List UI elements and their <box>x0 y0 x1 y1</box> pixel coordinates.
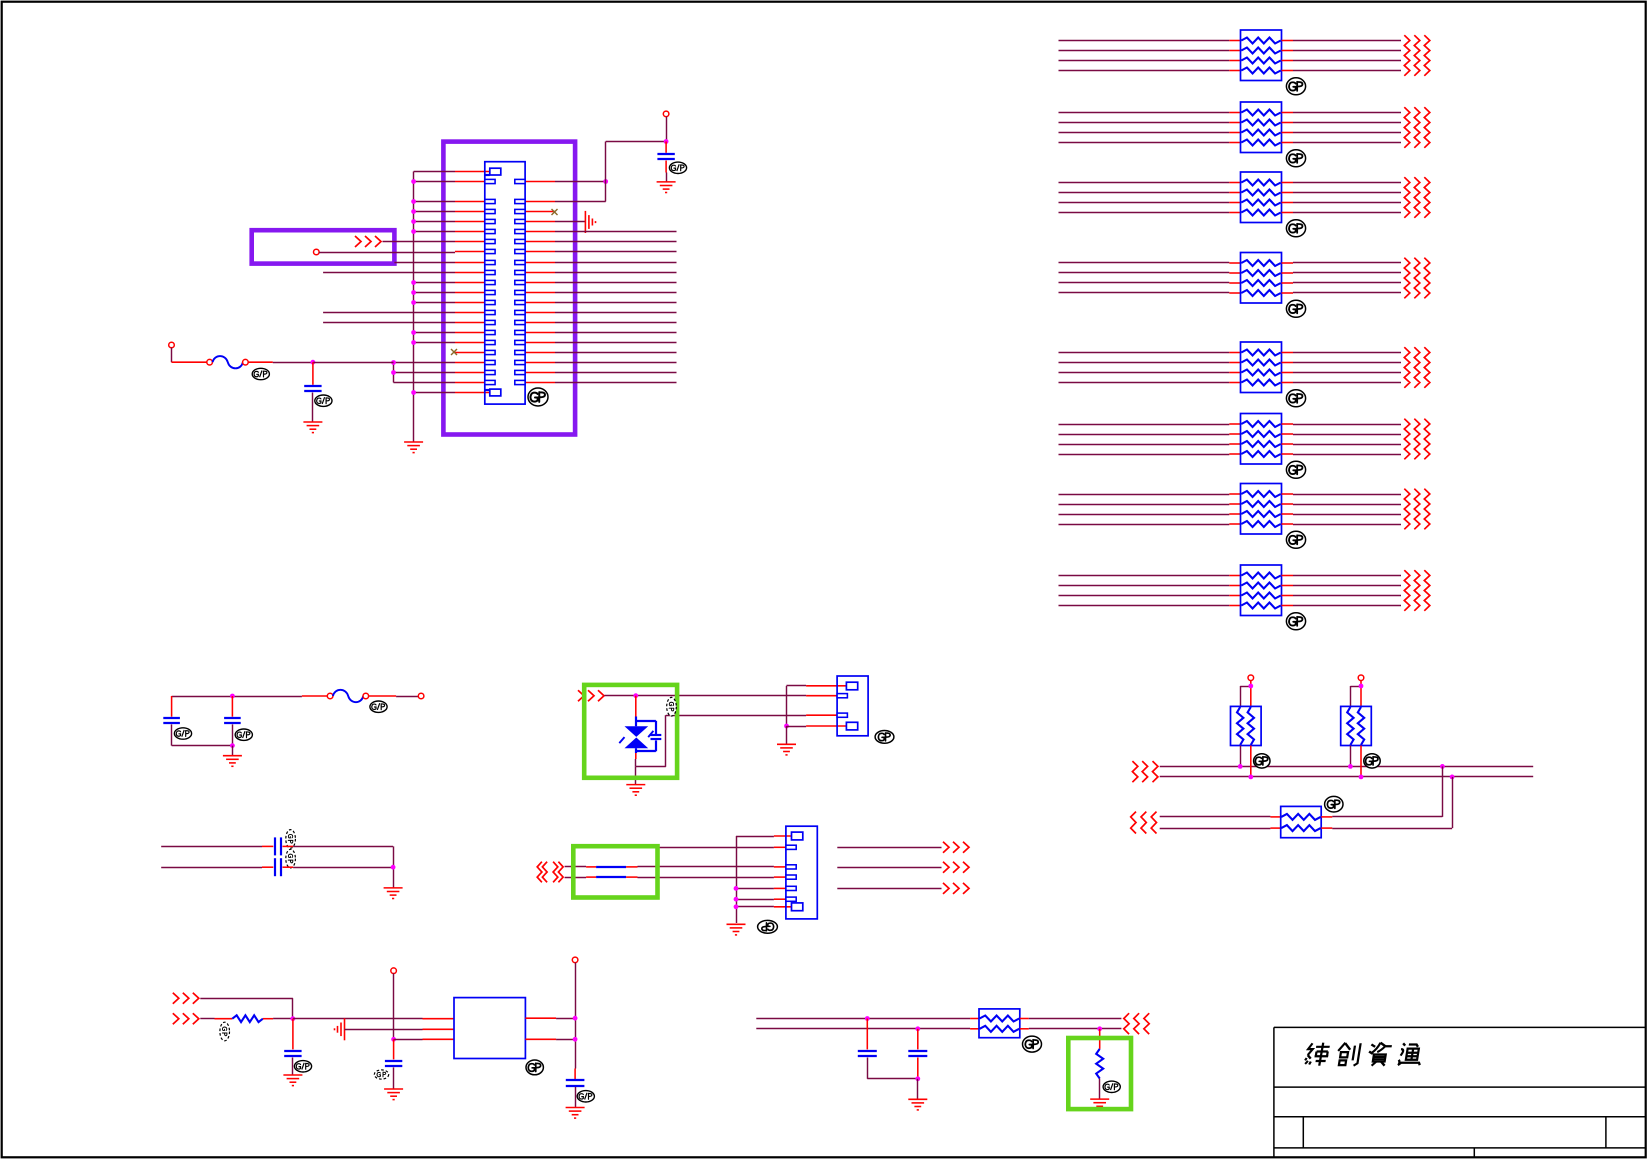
connector CN3 body <box>786 826 817 919</box>
capacitor C11 <box>908 1029 927 1079</box>
ground under C9 <box>566 1108 585 1119</box>
purple highlight box around off-page reference <box>252 230 395 263</box>
off-page arrows right of RP5 <box>1404 347 1430 388</box>
title block outline <box>1274 1027 1646 1157</box>
ground under C1 <box>657 182 676 193</box>
green highlight box around FB1 FB2 <box>573 846 657 897</box>
bus wire 2 <box>1160 776 1534 778</box>
resistor pack RP8 <box>1241 565 1282 616</box>
off-page arrows right of RP1 <box>1404 35 1430 76</box>
resistor pack RP11 <box>1281 806 1322 837</box>
off-page arrow C <box>943 883 969 894</box>
connector CN2 body <box>837 676 868 736</box>
wire to fuse F1 <box>172 361 207 363</box>
CN1 long right wires <box>555 232 677 383</box>
power terminal above RP9 <box>1248 675 1254 681</box>
wire into FB3 net1 <box>756 1018 979 1020</box>
no-connect X on left pin row 352 <box>451 349 457 355</box>
wire to ground under C4 <box>232 746 234 756</box>
long wire to CN1 pin row 272 <box>323 272 455 274</box>
resistor pack RP1 left wires <box>1059 41 1230 71</box>
resistor pack RP7 GP marker <box>1286 531 1305 548</box>
terminal circle right of F2 <box>418 693 424 699</box>
off-page arrow B <box>943 862 969 873</box>
wire row 372 <box>394 372 456 374</box>
wire caps to fuse F2 <box>302 695 328 697</box>
resistor pack RP3 right wires <box>1293 183 1401 213</box>
resistor pack RP5 right wires <box>1293 353 1401 383</box>
capacitor C8 <box>385 1039 402 1089</box>
RP9 junction dots <box>1238 764 1253 779</box>
resistor pack RP7 right pin stubs <box>1282 494 1294 524</box>
resistor R2 pulldown <box>1096 1029 1103 1099</box>
fuse F2 G/P marker <box>370 701 387 712</box>
ground under C11 <box>908 1099 927 1110</box>
resistor pack RP1 right pin stubs <box>1282 41 1294 71</box>
wire bus2 down to RP11 <box>1452 777 1454 828</box>
green highlight box around TVS <box>584 685 677 778</box>
resistor pack RP2 left pin stubs <box>1229 113 1240 143</box>
wire top of caps C3 C4 <box>172 696 302 698</box>
C1 G/P marker <box>669 162 686 173</box>
C5 label <box>286 830 296 849</box>
resistor pack RP3 right pin stubs <box>1282 183 1294 213</box>
ground under series caps <box>384 888 403 899</box>
wire fuse to C2 junction <box>248 361 313 363</box>
resistor pack RP3 <box>1241 172 1282 223</box>
junction dot row 181 <box>603 179 608 184</box>
wire CN2 pin4 <box>787 725 847 728</box>
ground under C8 <box>384 1089 403 1100</box>
wire CN3 pin7 <box>736 906 792 908</box>
RP10 wire to bus2 <box>1360 746 1362 777</box>
wire C5 to corner <box>283 845 394 847</box>
CN1 pin1 wire to bus <box>414 171 455 173</box>
resistor pack RP7 right wires <box>1293 495 1401 525</box>
CN3 output wire A <box>837 847 941 849</box>
purple highlight box around connector CN1 <box>443 142 575 435</box>
junction dot under C11 <box>915 1076 920 1081</box>
no-connect X on right pin row 211 <box>552 209 558 215</box>
bus wire 1 <box>1160 766 1534 768</box>
ground under CN2 <box>777 744 796 755</box>
CN3 output wire B <box>837 867 941 869</box>
wire terminal down <box>171 348 173 363</box>
ground under CN1 bus <box>404 442 423 453</box>
off-page arrow A <box>943 842 969 853</box>
bottom wire joining C3 C4 <box>172 745 233 747</box>
RP10 top tie wires <box>1350 680 1361 706</box>
terminal circle above U1 area <box>391 968 397 974</box>
ground under C4 <box>223 756 242 767</box>
ground under C7 <box>283 1075 302 1086</box>
junction dot CN2 pin4 net <box>784 724 789 729</box>
TVS label <box>667 697 677 716</box>
terminal circle left of fuse F1 <box>169 342 175 348</box>
wire net2 to resistor R1 <box>200 1018 232 1020</box>
resistor pack RP1 right wires <box>1293 41 1401 71</box>
resistor pack RP2 right wires <box>1293 113 1401 143</box>
terminal circle right vertical <box>572 957 578 963</box>
R2 G/P marker <box>1103 1081 1120 1092</box>
jog wire joining rows 362-382 <box>393 363 395 383</box>
resistor pack RP1 left pin stubs <box>1229 41 1240 71</box>
long wire to CN1 pin row 312 <box>323 312 455 314</box>
series element FB1 on CN3 pin3 net <box>565 866 786 869</box>
resistor R1 <box>232 1015 263 1022</box>
off-page arrows right of RP7 <box>1404 489 1430 530</box>
junction dot under C4 <box>230 743 235 748</box>
green highlight box around R2 <box>1068 1038 1131 1109</box>
terminal circle in small purple box <box>314 249 320 255</box>
FB3 output wire net2 <box>1020 1028 1122 1030</box>
capacitor C7 <box>284 1019 301 1075</box>
fuse F1 G/P marker <box>252 368 269 379</box>
RP9 top tie wires <box>1240 680 1251 706</box>
vertical wire right of caps <box>393 846 395 887</box>
capacitor C6 <box>275 858 281 876</box>
junction dot U1 pin3 net <box>391 1037 396 1042</box>
wire into C5 <box>161 845 273 847</box>
wire CN3 pin1 ground net <box>736 836 792 923</box>
junction dot above TVS D1 <box>633 693 638 698</box>
power terminal above RP10 <box>1358 675 1364 681</box>
wire TVS to ground <box>635 767 637 785</box>
C8 label <box>374 1070 388 1079</box>
junction dot at C10 <box>865 1016 870 1021</box>
resistor pack RP8 right wires <box>1293 576 1401 606</box>
wire CN2 pin1 to ground net <box>787 686 847 727</box>
wire net1 corner <box>200 998 293 1019</box>
wire arrow to CN2 pin2 <box>605 695 807 697</box>
wire from arrow to CN1 row 241 <box>383 241 456 243</box>
vertical wire from terminal <box>393 973 395 1039</box>
resistor pack RP5 <box>1241 342 1282 393</box>
wire C6 to junction <box>283 866 394 868</box>
CN2 pin3 stub <box>806 714 837 716</box>
resistor pack RP5 GP marker <box>1286 390 1305 407</box>
resistor pack FB3 <box>979 1009 1020 1038</box>
resistor pack RP8 GP marker <box>1286 613 1305 630</box>
company name 緯創資通 <box>1304 1043 1330 1066</box>
long wire to CN1 pin row 322 <box>323 322 455 324</box>
off-page arrows into bus wires 1-2 <box>1132 761 1158 782</box>
chassis ground right of CN1 <box>585 211 595 233</box>
wire into C6 <box>161 866 273 868</box>
wire TVS bottom loop <box>636 715 807 767</box>
U1 output wire 1 <box>525 1017 575 1019</box>
resistor pack RP6 right wires <box>1293 425 1401 455</box>
off-page arrow into TVS net <box>578 690 604 701</box>
R1 label <box>220 1022 230 1041</box>
RP10 GP marker <box>1364 754 1380 768</box>
CN2 pin2 stub <box>806 695 837 697</box>
capacitor C4 <box>224 696 241 746</box>
right vertical wire <box>575 963 577 1069</box>
bidirectional off-page arrows into CN3 nets <box>537 862 563 883</box>
ground under C2 <box>303 422 322 433</box>
RP11 right wires <box>1321 817 1452 829</box>
connector CN1 GP marker <box>528 388 548 406</box>
resistor pack RP3 left wires <box>1059 183 1230 213</box>
RP11 left wires <box>1160 817 1281 829</box>
wire into FB3 net2 <box>756 1028 979 1030</box>
ground under R2 <box>1090 1099 1109 1110</box>
left bus wire of CN1 <box>413 172 415 442</box>
resistor pack RP8 left pin stubs <box>1229 576 1240 606</box>
C9 G/P marker <box>577 1091 594 1102</box>
wire CN3 pin2 net <box>574 846 786 848</box>
capacitor C5 <box>275 837 281 855</box>
junction dot bus2 right <box>1450 775 1455 780</box>
CN1 right wire row 221 <box>555 221 585 223</box>
C6 label <box>286 849 296 868</box>
off-page arrow net1 <box>173 993 199 1004</box>
wire to ground under C11 <box>917 1079 919 1099</box>
CN3 GP marker rotated <box>758 920 778 933</box>
resistor pack RP6 right pin stubs <box>1282 424 1294 454</box>
junction dots on right vertical <box>573 1016 578 1042</box>
junction dot at C1 top <box>664 139 669 144</box>
pull-up pack RP9 <box>1231 706 1262 745</box>
off-page arrow into pin row 241 <box>355 236 381 247</box>
CN1 right wire row 201 jog up <box>555 142 666 202</box>
junction dot at C7 <box>291 1016 296 1021</box>
resistor pack RP6 <box>1241 414 1282 465</box>
resistor pack RP5 left wires <box>1059 353 1230 383</box>
ground under CN3 <box>727 924 746 935</box>
wire bus1 down to RP11 <box>1442 766 1444 817</box>
resistor pack RP2 <box>1241 102 1282 153</box>
off-page arrow net2 <box>173 1013 199 1024</box>
resistor pack RP1 GP marker <box>1286 78 1305 95</box>
wire terminal to C1 <box>666 117 668 142</box>
off-page arrows right of RP6 <box>1404 419 1430 460</box>
C3 G/P marker <box>174 728 191 739</box>
cap element of D1 <box>636 721 661 752</box>
wire from terminal to CN1 row 251 <box>319 252 455 254</box>
junction dot above RP9 <box>1248 684 1253 689</box>
C4 G/P marker <box>235 729 252 740</box>
junction dot above C4 <box>230 694 235 699</box>
wire C10 to C11 ground joint <box>867 1078 918 1080</box>
RP9 wire to bus1 <box>1240 746 1242 767</box>
TVS diode D1 <box>619 696 653 759</box>
C2 G/P marker <box>315 395 332 406</box>
resistor pack RP4 GP marker <box>1286 300 1305 317</box>
RP11 GP marker <box>1325 796 1343 812</box>
fuse F1 <box>207 356 248 368</box>
capacitor C9 <box>566 1069 585 1108</box>
pull-up pack RP10 <box>1341 706 1372 745</box>
wire C2 junction to jog <box>313 362 394 364</box>
connector CN1 right pin stubs <box>525 182 555 383</box>
resistor pack RP4 left wires <box>1059 263 1230 293</box>
capacitor C3 <box>163 696 180 746</box>
wire to block U1 pin3 <box>394 1038 454 1040</box>
CN1 right wire row 181 <box>555 181 606 183</box>
resistor pack RP2 right pin stubs <box>1282 113 1294 143</box>
U1 GP marker <box>526 1060 543 1075</box>
resistor pack RP5 left pin stubs <box>1229 353 1240 383</box>
resistor pack RP3 GP marker <box>1286 220 1305 237</box>
CN2 GP marker <box>875 731 894 744</box>
resistor pack RP6 left wires <box>1059 425 1230 455</box>
resistor pack RP4 right pin stubs <box>1282 263 1294 293</box>
wire chassis to block U1 pin2 <box>345 1028 455 1030</box>
power terminal circle above C1 <box>663 111 669 117</box>
resistor pack RP7 <box>1241 484 1282 535</box>
jog junction dots <box>391 360 396 375</box>
series element FB2 on CN3 pin4 net <box>565 876 786 879</box>
RP9 wire to bus2 <box>1250 746 1252 777</box>
wire fuse F2 to terminal <box>369 695 419 698</box>
wire CN3 pin5 <box>736 887 786 889</box>
capacitor C10 <box>858 1019 877 1079</box>
connector CN1 body <box>485 162 525 404</box>
off-page arrows into RP11 nets <box>1131 812 1157 834</box>
off-page arrows left-pointing right of FB3 <box>1124 1013 1149 1034</box>
CN1 left pin wires to bus <box>414 182 455 393</box>
resistor pack RP2 GP marker <box>1286 150 1305 167</box>
wire stub row 262 from box edge <box>394 262 455 264</box>
wire CN2 ground <box>786 726 788 744</box>
C7 G/P marker <box>294 1061 311 1072</box>
off-page arrows right of RP2 <box>1404 107 1430 148</box>
off-page arrows right of RP8 <box>1404 570 1430 611</box>
resistor pack RP6 left pin stubs <box>1229 424 1240 454</box>
resistor pack RP3 left pin stubs <box>1229 183 1240 213</box>
CN3 output wire C <box>837 888 941 890</box>
CN3 ground net junction dots <box>734 886 739 909</box>
FB3 GP marker <box>1023 1036 1042 1052</box>
resistor pack RP7 left pin stubs <box>1229 494 1240 524</box>
bus junction dots <box>411 179 416 395</box>
resistor pack RP8 right pin stubs <box>1282 576 1294 606</box>
resistor pack RP2 left wires <box>1059 113 1230 143</box>
resistor pack RP7 left wires <box>1059 495 1230 525</box>
off-page arrows right of RP3 <box>1404 177 1430 218</box>
resistor pack RP4 right wires <box>1293 263 1401 293</box>
resistor pack RP8 left wires <box>1059 576 1230 606</box>
RP10 wire to bus1 <box>1350 746 1352 767</box>
off-page arrows right of RP4 <box>1404 258 1430 299</box>
junction dot on vertical <box>391 865 396 870</box>
fuse F2 <box>327 690 368 702</box>
connector CN1 left pin stubs <box>455 172 490 393</box>
resistor pack RP4 left pin stubs <box>1229 263 1240 293</box>
capacitor C1 <box>657 142 674 182</box>
wire R1 to junction <box>263 1018 293 1020</box>
junction dot at C11 <box>915 1026 920 1031</box>
wire junction to block U1 <box>293 1018 454 1020</box>
junction dot bus1 right <box>1440 764 1445 769</box>
resistor pack RP6 GP marker <box>1286 461 1305 478</box>
chassis ground left of U1 net2 <box>335 1018 345 1040</box>
wire CN3 pin6 <box>736 898 786 900</box>
FB3 output wire net1 <box>1020 1018 1122 1020</box>
capacitor C2 <box>304 362 321 422</box>
filter block U1 <box>454 998 525 1059</box>
resistor pack RP4 <box>1241 253 1282 304</box>
U1 output wire 2 <box>525 1038 575 1040</box>
wire row 362 from fuse to pin <box>394 362 456 364</box>
RP10 junction dots <box>1348 764 1363 779</box>
resistor pack RP1 <box>1241 30 1282 81</box>
resistor pack RP5 right pin stubs <box>1282 353 1294 383</box>
RP9 GP marker <box>1254 754 1270 768</box>
junction dot above R2 <box>1097 1026 1102 1031</box>
ground under TVS <box>626 785 645 796</box>
wire row 382 <box>394 382 456 384</box>
junction dot at C2 <box>311 360 316 365</box>
junction dot above RP10 <box>1359 684 1364 689</box>
